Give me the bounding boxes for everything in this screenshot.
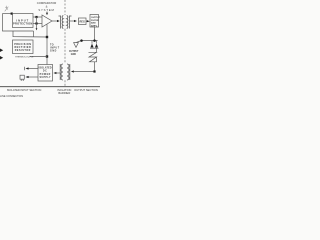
bottom rule [0,86,100,88]
svg-text:REG: REG [79,21,84,24]
rail under diodes [90,47,99,49]
oscillator sawtooth driver [89,52,97,62]
wire comparator to T1 [52,20,57,22]
wire low-side left run [3,14,34,32]
wire input to protection box [3,13,13,15]
label input common [50,44,60,52]
transformer T1 [59,16,72,29]
diode D2 [96,41,98,44]
svg-text:THERMOCOUPLE: THERMOCOUPLE [15,57,34,59]
output terminal open arrow [74,43,79,48]
transformer T2 [60,64,70,80]
svg-text:POWER: POWER [40,74,51,76]
wire low-side lower run [13,31,47,37]
wire T2 to power supply [56,72,60,74]
box precision resistor [13,40,34,54]
label COMPARATOR & SYSTEM [37,1,57,12]
svg-text:GND: GND [71,54,76,56]
wire to comparator + [33,16,42,18]
node J3 [35,22,37,24]
node J2 [35,16,37,18]
svg-text:AND: AND [91,22,96,25]
svg-text:OUTPUT SECTION: OUTPUT SECTION [74,88,98,92]
svg-text:INPUT: INPUT [50,47,60,49]
box output amplifier [90,15,99,28]
thermocouple probe symbol [5,6,9,12]
plug symbol [20,75,24,79]
feedback stub with down arrow [36,17,38,29]
box regulator [79,18,87,25]
svg-text:ISOLATED INPUT SECTION: ISOLATED INPUT SECTION [7,88,42,92]
svg-text:BARRIER: BARRIER [58,91,70,95]
svg-text:TO: TO [50,44,54,46]
left edge arrow 1 [0,49,3,53]
svg-text:RESISTOR: RESISTOR [15,49,31,52]
svg-text:GND: GND [50,50,57,52]
label output gnd [69,51,79,56]
svg-text:SUPPLY: SUPPLY [40,77,51,79]
svg-text:FILTER: FILTER [91,20,99,22]
wire driver to T2 [74,62,95,72]
svg-text:SYSTEM: SYSTEM [38,8,54,12]
wire junction drop [33,31,35,37]
left edge arrow 2 [0,56,3,60]
node J7 [46,36,48,38]
supply output wire 1 [28,68,39,70]
output bus [77,41,98,43]
diode D1 [91,41,93,44]
node J5 [93,39,96,42]
main vertical wire comparator to supply [46,24,48,64]
svg-text:OUTPUT: OUTPUT [69,51,79,53]
svg-text:LINE CONNECTION: LINE CONNECTION [0,95,23,98]
node J4 [80,39,83,42]
wire to comparator - [33,23,42,25]
node J8 [46,55,48,57]
node J1 [11,13,13,15]
wire sense tap [30,56,47,58]
supply output wire 2 [28,76,39,78]
svg-text:OUTPUT: OUTPUT [91,17,100,19]
wire T1 to regulator [70,20,75,22]
svg-text:AMPL: AMPL [91,24,98,27]
svg-text:PROTECTION: PROTECTION [13,22,33,26]
arrow regulator to output block [86,20,87,22]
svg-text:DC: DC [43,71,48,73]
isolation barrier dashed line [64,0,66,87]
box DC POWER SUPPLY [38,65,53,82]
comparator triangle U1 [42,15,52,27]
svg-text:ISOLATED: ISOLATED [39,67,52,70]
wire output block down to bus [94,27,96,41]
label pointer arrow [46,12,48,14]
node J6 [93,70,95,72]
box INPUT PROTECTION [13,14,34,28]
